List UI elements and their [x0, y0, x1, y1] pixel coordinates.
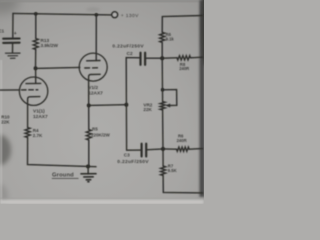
V1b grid (dashed) — [85, 67, 100, 69]
wire R13 bottom to node A — [35, 50, 37, 69]
svg-text:V1(1): V1(1) — [33, 109, 45, 115]
node wiper — [161, 88, 165, 92]
wire top supply rail — [13, 13, 112, 15]
svg-text:22K: 22K — [1, 119, 10, 124]
wire wiper loop — [163, 90, 177, 106]
svg-text:9.1k: 9.1k — [166, 36, 175, 41]
resistor R7 — [161, 166, 166, 176]
resistor R8 (upper horizontal) — [177, 56, 191, 60]
wire C1 to ground symbol — [12, 44, 14, 53]
node ground bus R5 — [86, 164, 90, 168]
svg-text:12AX7: 12AX7 — [33, 114, 48, 120]
svg-text:C2: C2 — [127, 51, 133, 56]
svg-text:0.22uF/250V: 0.22uF/250V — [117, 159, 149, 165]
wire rail R6 to C2 node — [161, 43, 163, 59]
wire node K to spine junction — [89, 104, 127, 107]
svg-text:+ 130V: + 130V — [121, 13, 139, 19]
svg-text:3.9k/2W: 3.9k/2W — [41, 43, 59, 48]
wire V1b cathode down to node K — [88, 80, 90, 105]
svg-text:220K/2W: 220K/2W — [91, 132, 111, 137]
triode V1b envelope — [79, 53, 107, 81]
ground (bottom bus) — [81, 174, 96, 182]
node A — [34, 66, 38, 70]
capacitor C2 — [141, 53, 146, 65]
wire V1a cathode to R4 — [27, 101, 29, 128]
node spine mid — [124, 103, 128, 107]
capacitor C3 — [142, 144, 147, 157]
wire C2 node to R8 — [162, 57, 177, 59]
potentiometer VR2 wiper arrow — [166, 104, 170, 107]
svg-text:+: + — [14, 31, 17, 37]
node C2/rail — [160, 56, 164, 60]
resistor R5 — [86, 130, 91, 141]
wire node K to R5 — [88, 105, 90, 129]
op-amp: none; triode V1a envelope — [19, 77, 47, 105]
wire V1b anode lead from top rail — [95, 15, 97, 61]
wire R13 top lead — [35, 14, 37, 39]
terminal +130V — [112, 12, 118, 18]
wire C3 node to R6 lower — [163, 148, 177, 150]
wire R8 to right edge — [191, 56, 203, 59]
wire R7 bottom to right edge — [163, 176, 202, 193]
svg-text:C3: C3 — [124, 153, 130, 158]
V1b anode plate — [87, 60, 100, 62]
wire node A to V1a anode — [35, 68, 37, 83]
wire node A to V1b grid — [36, 67, 80, 68]
potentiometer VR2 body — [160, 102, 165, 111]
V1a cathode — [28, 97, 40, 101]
V1b cathode — [89, 74, 101, 80]
svg-text:Ground: Ground — [52, 173, 74, 179]
svg-text:V1/2: V1/2 — [88, 85, 98, 91]
wire ground stub — [87, 166, 89, 174]
svg-text:240R: 240R — [179, 66, 189, 71]
wire right rail top horizontal — [162, 16, 202, 33]
svg-text:12AX7: 12AX7 — [88, 91, 103, 97]
svg-text:2.7K: 2.7K — [33, 133, 43, 138]
wire wiper node to VR2 body — [162, 90, 164, 102]
wire C3 node down to R7 — [162, 149, 164, 166]
resistor R6 (lower horizontal) — [177, 147, 190, 151]
svg-text:0.22uF/250V: 0.22uF/250V — [112, 44, 144, 50]
ground (left, below C1) — [6, 53, 21, 58]
photo vignette shadows — [0, 0, 208, 208]
node top anode — [95, 13, 99, 17]
node C3/rail — [161, 147, 165, 151]
svg-text:9.5K: 9.5K — [168, 168, 177, 173]
svg-text:C1: C1 — [0, 29, 5, 34]
wire rail C2 node down to wiper node — [161, 58, 163, 90]
node K left — [87, 103, 91, 107]
resistor R6 (top right vertical) — [160, 32, 165, 42]
node top R13 — [34, 12, 38, 16]
resistor R4 — [25, 128, 30, 138]
V1a grid (dashed) — [22, 89, 38, 91]
wire V1a grid lead to left edge — [0, 89, 20, 91]
wire C3 right plate to rail — [146, 148, 163, 151]
wire spine C2-C3 vertical — [126, 58, 141, 151]
svg-text:R5: R5 — [92, 127, 98, 132]
V1a anode plate — [26, 82, 41, 84]
wire R4 bottom to ground bus — [28, 138, 97, 167]
wire VR2 bottom to C3 node — [162, 110, 164, 149]
svg-text:240R: 240R — [177, 138, 187, 143]
capacitor C1 (polarized, to ground) — [3, 39, 19, 43]
svg-text:22K: 22K — [143, 107, 152, 112]
wire C1 branch down from top-left corner — [12, 13, 14, 37]
wire C2 right plate to rail — [145, 57, 162, 59]
resistor R13 — [33, 39, 38, 50]
wire R5 bottom to ground bus — [88, 140, 90, 167]
wire lower R6 to right edge — [189, 148, 202, 151]
